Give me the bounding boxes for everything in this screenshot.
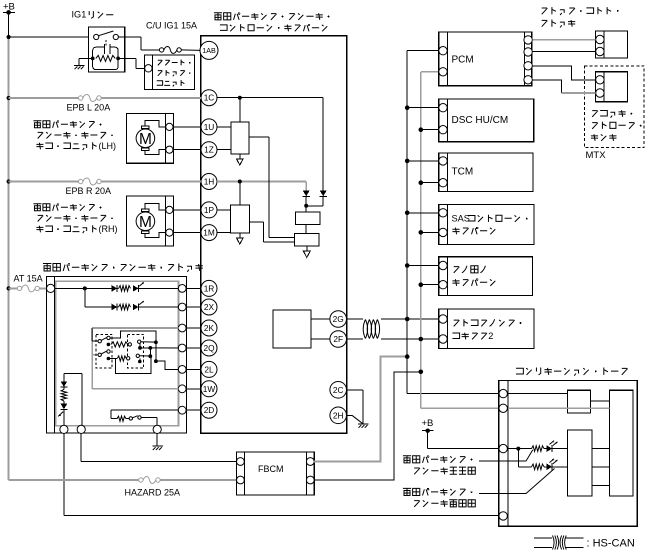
svg-text:EPB L 20A: EPB L 20A — [67, 103, 111, 113]
svg-text:1P: 1P — [204, 205, 215, 215]
pin 2X — [201, 299, 217, 315]
relay coil — [91, 44, 120, 70]
indicator lamp circuit — [508, 441, 568, 453]
svg-text:C/U IG1 15A: C/U IG1 15A — [146, 21, 197, 31]
pin 1H — [201, 174, 217, 190]
fuse EPB L 20A row (gray) — [9, 95, 201, 113]
switch terminals bottom — [60, 425, 161, 433]
clutch stroke sensor dashed box — [584, 66, 644, 148]
svg-text:1U: 1U — [204, 122, 215, 132]
EPB switch inner unit (gray) — [56, 281, 179, 426]
wire 2D to test switch — [111, 410, 178, 425]
meter internal wires — [508, 394, 610, 486]
relay IG1 box — [88, 27, 124, 72]
switch row A resistor — [111, 340, 141, 347]
warning lamp circuit — [518, 449, 567, 471]
switch internal gray bus 2K-1W — [92, 328, 178, 389]
ground 2C/2H — [358, 424, 368, 428]
clutch stroke sensor label — [591, 110, 642, 141]
wire FBCM to CAN bus2 — [314, 372, 420, 480]
wire relay coil to ground — [79, 58, 93, 65]
wire row 1R with diodes+resistor — [55, 282, 179, 292]
module diagnosis connector 2 — [439, 309, 534, 348]
CAN interface box in module — [273, 310, 330, 348]
pin 2F — [330, 331, 347, 348]
wire relay contact to fuse C/U IG1 — [118, 37, 159, 50]
svg-text:(LH): (LH) — [99, 141, 117, 151]
wire driver2 to box B — [250, 222, 295, 242]
switch row B lower loop wire — [116, 356, 151, 373]
svg-text:1H: 1H — [204, 176, 215, 186]
module other modules — [439, 257, 533, 296]
wire driver1 to box B — [249, 137, 294, 238]
switch terminals right — [178, 285, 186, 415]
pin 1C — [201, 90, 217, 106]
wire row 2X with diodes+resistor — [85, 288, 179, 310]
wire 2H to ground — [347, 415, 363, 424]
svg-text:AT 15A: AT 15A — [14, 274, 43, 284]
stop light switch box — [596, 31, 628, 58]
wire 1H internal (gray) to diode — [217, 180, 306, 191]
wire switch to meter (bottom rail) — [64, 433, 499, 516]
pin 1M — [201, 225, 217, 241]
CAN bus junction dots — [405, 105, 423, 374]
wire fuse to pin 1AB — [181, 49, 200, 52]
start-stop unit label — [157, 60, 191, 87]
motor gear unit LH — [127, 113, 201, 163]
fuse AT 15A row (gray) — [9, 274, 47, 292]
warning lamp label — [403, 488, 475, 507]
svg-text:2X: 2X — [204, 302, 215, 312]
diode module left — [303, 191, 310, 212]
wire node to 2L — [156, 361, 178, 369]
wire +B to relay — [9, 36, 89, 38]
wires PCM to stop light switch (gray) — [532, 40, 595, 52]
svg-text:1Z: 1Z — [204, 145, 214, 155]
switch row B contacts — [98, 350, 110, 361]
svg-text:2C: 2C — [333, 385, 344, 395]
indicator lamp label — [403, 456, 475, 475]
module PCM — [439, 32, 533, 86]
svg-text:HAZARD 25A: HAZARD 25A — [125, 487, 181, 497]
svg-text:: HS-CAN: : HS-CAN — [587, 537, 635, 549]
stop light switch label — [542, 7, 619, 27]
svg-text:(RH): (RH) — [99, 224, 118, 234]
module SAS control — [439, 205, 534, 245]
EPB control module title — [214, 13, 329, 32]
driver box B — [295, 234, 320, 252]
combination meter box — [499, 381, 638, 527]
svg-text:2K: 2K — [204, 323, 215, 333]
EPB switch box — [47, 276, 187, 433]
wire relay coil to start-stop unit — [118, 58, 145, 68]
switch row A bypass wire — [110, 331, 158, 344]
pin 2D — [201, 402, 217, 418]
svg-text:M: M — [139, 214, 152, 231]
open arrow below box B — [303, 251, 310, 257]
wire 2F CAN-L — [347, 338, 439, 340]
wire row A to 2Q — [138, 343, 178, 349]
svg-text:IG1: IG1 — [72, 10, 87, 20]
driver box A — [295, 212, 319, 234]
pin 1AB — [200, 41, 218, 59]
motor gear unit RH — [127, 196, 201, 246]
relay contact switch — [94, 31, 119, 47]
wires PCM to clutch sensor (gray) — [532, 66, 595, 93]
wires bus to module connectors — [407, 108, 439, 285]
switch illumination chain — [58, 373, 82, 425]
wire FBCM to CAN bus1 (gray) — [314, 357, 406, 462]
wire CAN bus1 vertical — [407, 51, 499, 394]
dashed switch block right — [128, 334, 144, 368]
module DSC HU/CM — [439, 99, 534, 142]
clutch stroke sensor box — [596, 72, 628, 102]
svg-text:2: 2 — [488, 331, 493, 341]
diode module right — [306, 191, 327, 206]
node links vertical — [148, 342, 157, 363]
motor driver 1 (1U/1Z) — [217, 98, 249, 159]
relay IG1 label — [72, 10, 114, 20]
svg-text:SAS: SAS — [452, 213, 470, 223]
pin 1W — [201, 381, 217, 397]
svg-text:FBCM: FBCM — [258, 464, 284, 474]
open arrow below driver 2 — [236, 238, 243, 244]
svg-text:M: M — [139, 131, 152, 148]
wires switch to module pins — [186, 288, 201, 410]
power +B meter — [422, 418, 434, 433]
warning lamp leader — [479, 469, 555, 494]
svg-text:2G: 2G — [333, 314, 344, 324]
indicator lamp leader — [479, 450, 533, 461]
combination meter label — [516, 367, 628, 375]
open arrow below driver 1 — [236, 159, 243, 165]
svg-text:2L: 2L — [204, 364, 214, 374]
svg-text:PCM: PCM — [452, 55, 474, 66]
svg-text:DSC HU/CM: DSC HU/CM — [452, 115, 509, 126]
svg-text:1M: 1M — [203, 228, 215, 238]
pin 2Q — [201, 340, 217, 356]
pin 2G — [330, 311, 347, 328]
wire +B to meter — [428, 431, 499, 449]
wire 2G CAN-H — [347, 318, 439, 320]
motor driver 2 (1P/1M) — [217, 182, 250, 238]
pin 1Z — [201, 142, 217, 158]
svg-text:EPB R 20A: EPB R 20A — [66, 186, 112, 196]
pin 1U — [201, 119, 217, 135]
svg-text:MTX: MTX — [586, 150, 607, 161]
dashed switch block left — [96, 334, 112, 368]
pin 2C — [330, 382, 347, 399]
svg-text:2H: 2H — [333, 410, 344, 420]
wire 1C internal to diode — [217, 96, 323, 191]
module TCM — [439, 153, 533, 191]
ground relay — [74, 65, 84, 69]
wire 2C to ground — [347, 390, 363, 424]
node +B branch junctions — [7, 35, 11, 291]
motor gear unit RH label — [33, 204, 117, 234]
legend HS-CAN twisted pair — [534, 536, 635, 550]
pin 2L — [201, 361, 217, 377]
svg-text:+B: +B — [422, 418, 434, 429]
start-stop unit box — [144, 55, 194, 90]
ground below switch box — [152, 433, 162, 450]
svg-text:2Q: 2Q — [203, 343, 215, 353]
wire +B rail vertical (gray) — [8, 12, 10, 479]
twisted pair symbol — [363, 320, 379, 339]
svg-text:TCM: TCM — [452, 166, 474, 177]
switch terminal left — [47, 284, 55, 292]
pin 1P — [201, 202, 217, 218]
svg-text:1R: 1R — [204, 283, 215, 293]
EPB control module box U1 — [201, 36, 347, 434]
svg-text:1C: 1C — [204, 93, 215, 103]
switch row B resistor — [108, 354, 150, 361]
EPB switch label — [43, 264, 203, 272]
wire switch to FBCM — [81, 433, 236, 461]
fuse HAZARD 25A row (gray) — [9, 477, 237, 498]
meter internal boxes — [568, 390, 634, 496]
fuse EPB R 20A row (gray) — [9, 178, 201, 196]
svg-text:2F: 2F — [333, 334, 343, 344]
switch row A contacts — [92, 328, 110, 346]
pin 2K — [201, 320, 217, 336]
FBCM box — [237, 452, 315, 495]
svg-text:1AB: 1AB — [202, 46, 216, 55]
fuse C/U IG1 15A — [146, 21, 197, 54]
pin 2H — [330, 407, 347, 424]
pin 1R — [201, 280, 217, 296]
motor gear unit LH label — [33, 121, 116, 151]
svg-text:2D: 2D — [204, 405, 215, 415]
wire CAN bus2 vertical (gray) — [421, 72, 499, 409]
svg-text:1W: 1W — [203, 384, 216, 394]
power +B top-left — [3, 1, 15, 14]
